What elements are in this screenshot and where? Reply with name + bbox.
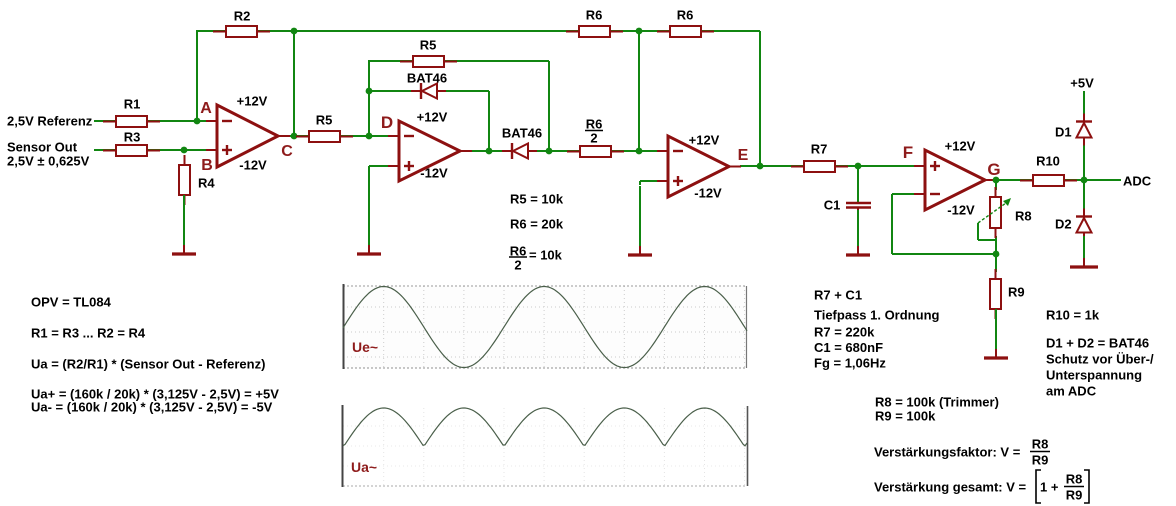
svg-text:+5V: +5V bbox=[1070, 76, 1094, 91]
resistor R4 bbox=[179, 155, 190, 205]
label Ua~ bbox=[351, 459, 377, 475]
svg-text:= 10k: = 10k bbox=[529, 248, 563, 263]
note Verstaerkungsfaktor bbox=[874, 445, 1021, 460]
node C junction bbox=[291, 133, 298, 140]
junction R8/R9 feedback bbox=[993, 251, 1000, 258]
junction BAT46 feedback tap bbox=[366, 88, 373, 95]
svg-text:Ua- = (160k / 20k) * (3,125V: Ua- = (160k / 20k) * (3,125V - 2,5V) = -… bbox=[31, 400, 273, 415]
label U4 +12V bbox=[945, 139, 976, 154]
note OPV = TL084 bbox=[31, 295, 112, 310]
note Verstaerkung gesamt bbox=[874, 480, 1026, 495]
resistor R9 bbox=[990, 269, 1001, 319]
svg-text:R7 = 220k: R7 = 220k bbox=[814, 325, 875, 340]
wire Sensor Out input to op-amp U1 non-inverting input bbox=[94, 149, 207, 151]
label R1 bbox=[124, 97, 141, 112]
ground U2 non-inverting input bbox=[357, 168, 381, 254]
svg-text:R9: R9 bbox=[1066, 488, 1083, 503]
label R6 first bbox=[586, 8, 603, 23]
wire U2 non-inverting input to ground bbox=[369, 166, 400, 170]
note Unterspannung bbox=[1046, 368, 1142, 383]
label R6 second bbox=[677, 8, 694, 23]
note Ua- formula bbox=[31, 400, 273, 415]
junction R6 middle bbox=[636, 28, 643, 35]
label node E bbox=[738, 147, 749, 164]
label R6/2 fraction bbox=[585, 117, 603, 146]
resistor R1 bbox=[103, 116, 160, 127]
value R6/2 = 10k bbox=[509, 244, 563, 273]
svg-text:-12V: -12V bbox=[947, 203, 975, 218]
note R8 = 100k (Trimmer) bbox=[875, 395, 999, 410]
note Ua+ formula bbox=[31, 387, 279, 402]
wire D1 branch up bbox=[1083, 139, 1085, 180]
label U3 +12V bbox=[689, 133, 720, 148]
diode D2 bbox=[1076, 209, 1092, 241]
svg-text:R8: R8 bbox=[1015, 209, 1032, 224]
label U3 -12V bbox=[694, 186, 722, 201]
junction R8 top bbox=[993, 177, 1000, 184]
op-amp U3 (E) bbox=[657, 136, 741, 197]
svg-text:Sensor Out: Sensor Out bbox=[7, 140, 78, 155]
resistor R3 bbox=[103, 145, 160, 156]
label D2 bbox=[1055, 217, 1072, 232]
svg-text:OPV = TL084: OPV = TL084 bbox=[31, 295, 112, 310]
wire BAT46 feedback right vertical bbox=[488, 91, 490, 151]
wire 2,5V Referenz input to node A bbox=[94, 120, 207, 122]
note R7 = 220k bbox=[814, 325, 875, 340]
node B junction bbox=[181, 147, 188, 154]
label node B bbox=[201, 157, 213, 174]
waveform Ue sine curve bbox=[343, 287, 747, 368]
note R7 + C1 bbox=[814, 288, 862, 303]
wire U3 non-inverting input to ground bbox=[640, 181, 669, 185]
diode BAT46 feedback bbox=[411, 83, 446, 99]
wire R6 junction vertical bbox=[638, 31, 640, 151]
oscilloscope plot Ua frame and grid bbox=[343, 405, 748, 487]
wire C1 branch down bbox=[857, 166, 859, 202]
resistor R6/2 bbox=[567, 146, 624, 157]
label R4 bbox=[198, 176, 215, 191]
junction node E output bbox=[757, 163, 764, 170]
wire R5 feedback right vertical down to node D output bbox=[548, 61, 550, 151]
node A junction bbox=[194, 118, 201, 125]
junction U2 inverting input bbox=[366, 133, 373, 140]
svg-text:Ue~: Ue~ bbox=[352, 339, 378, 355]
svg-text:C1 = 680nF: C1 = 680nF bbox=[814, 340, 883, 355]
note Ua formula bbox=[31, 357, 265, 372]
junction C1 tap bbox=[855, 163, 862, 170]
label U1 -12V bbox=[239, 158, 267, 173]
note Fg = 1,06Hz bbox=[814, 356, 886, 371]
op-amp U2 (D) bbox=[388, 121, 472, 181]
svg-text:E: E bbox=[738, 147, 749, 164]
svg-text:+12V: +12V bbox=[237, 94, 268, 109]
note R1 = R3 ... R2 = R4 bbox=[31, 326, 146, 341]
svg-text:R7 + C1: R7 + C1 bbox=[814, 288, 862, 303]
wire BAT46 feedback branch bbox=[369, 90, 489, 92]
label R9 bbox=[1008, 285, 1025, 300]
value R6 = 20k bbox=[510, 217, 564, 232]
label R5 feedback bbox=[420, 38, 437, 53]
svg-text:Tiefpass 1. Ordnung: Tiefpass 1. Ordnung bbox=[814, 308, 940, 323]
svg-text:C: C bbox=[281, 143, 293, 160]
ground R4 bbox=[172, 195, 196, 254]
svg-text:BAT46: BAT46 bbox=[407, 71, 447, 86]
note Verstaerkung gesamt bracket expression bbox=[1036, 470, 1089, 503]
junction R6/2 output bbox=[636, 148, 643, 155]
note R10 = 1k bbox=[1046, 308, 1100, 323]
label U2 -12V bbox=[420, 166, 448, 181]
label +5V supply bbox=[1070, 76, 1094, 91]
label node F bbox=[903, 143, 913, 162]
ground C1 bbox=[846, 210, 870, 255]
label R8 bbox=[1015, 209, 1032, 224]
label R3 bbox=[124, 130, 141, 145]
label R2 bbox=[234, 9, 251, 24]
ground R9 bbox=[984, 309, 1008, 358]
wire D2 anode to ground bbox=[1083, 232, 1085, 240]
wire node C to op-amp U2 inverting input bbox=[289, 135, 400, 137]
wire top feedback rail R2 to R6 bbox=[196, 30, 639, 32]
value R5 = 10k bbox=[510, 192, 564, 207]
wire node D output line to op-amp U3 inverting input bbox=[471, 150, 669, 152]
svg-text:Verstärkungsfaktor: V =: Verstärkungsfaktor: V = bbox=[874, 445, 1021, 460]
label BAT46 feedback bbox=[407, 71, 447, 86]
resistor R2 bbox=[213, 26, 270, 37]
label Ue~ bbox=[352, 339, 378, 355]
svg-text:Unterspannung: Unterspannung bbox=[1046, 368, 1142, 383]
label U2 +12V bbox=[417, 110, 448, 125]
svg-text:BAT46: BAT46 bbox=[502, 126, 542, 141]
label U1 +12V bbox=[237, 94, 268, 109]
wire R8 wiper connection bbox=[978, 223, 996, 240]
svg-text:R5: R5 bbox=[420, 38, 437, 53]
note R9 = 100k bbox=[875, 409, 936, 424]
svg-text:R1: R1 bbox=[124, 97, 141, 112]
svg-text:Verstärkung gesamt: V =: Verstärkung gesamt: V = bbox=[874, 480, 1026, 495]
note C1 = 680nF bbox=[814, 340, 883, 355]
svg-text:-12V: -12V bbox=[694, 186, 722, 201]
wire node E output to op-amp U4 non-inverting input bbox=[740, 165, 926, 167]
svg-text:R6 = 20k: R6 = 20k bbox=[510, 217, 564, 232]
capacitor C1 bbox=[846, 203, 871, 212]
svg-text:+12V: +12V bbox=[945, 139, 976, 154]
wire node G output to ADC node bbox=[996, 179, 1084, 181]
svg-text:G: G bbox=[987, 160, 1000, 179]
svg-text:C1: C1 bbox=[824, 198, 841, 213]
svg-text:R8: R8 bbox=[1066, 472, 1083, 487]
label C1 bbox=[824, 198, 841, 213]
label 2,5V Referenz bbox=[7, 114, 93, 129]
svg-text:R6: R6 bbox=[586, 117, 603, 132]
wire +5V supply to D1 cathode bbox=[1083, 91, 1085, 122]
label node A bbox=[200, 100, 212, 117]
label U4 -12V bbox=[947, 203, 975, 218]
resistor R6 first bbox=[566, 26, 623, 37]
svg-text:R5 = 10k: R5 = 10k bbox=[510, 192, 564, 207]
svg-text:R9: R9 bbox=[1008, 285, 1025, 300]
svg-text:D1 + D2 = BAT46: D1 + D2 = BAT46 bbox=[1046, 336, 1149, 351]
svg-text:2: 2 bbox=[514, 258, 521, 273]
wire R5 feedback top bbox=[368, 60, 549, 62]
wire R2 output down to node C bbox=[293, 31, 295, 136]
svg-text:B: B bbox=[201, 157, 213, 174]
svg-text:D1: D1 bbox=[1055, 125, 1072, 140]
svg-text:2,5V ± 0,625V: 2,5V ± 0,625V bbox=[7, 154, 90, 169]
label R5 series bbox=[316, 113, 333, 128]
label BAT46 series bbox=[502, 126, 542, 141]
resistor R6 second bbox=[657, 26, 714, 37]
diode BAT46 series bbox=[502, 143, 537, 159]
resistor R5 series bbox=[296, 131, 353, 142]
svg-text:am ADC: am ADC bbox=[1046, 384, 1097, 399]
svg-text:1 +: 1 + bbox=[1040, 480, 1059, 495]
wire R8 top stub bbox=[995, 180, 997, 190]
wire ADC node to ADC label bbox=[1084, 179, 1121, 181]
svg-text:A: A bbox=[200, 100, 212, 117]
resistor R5 feedback bbox=[400, 56, 457, 67]
note Tiefpass 1. Ordnung bbox=[814, 308, 940, 323]
junction node D R5 branch bbox=[546, 148, 553, 155]
svg-text:R6: R6 bbox=[586, 8, 603, 23]
label R7 bbox=[811, 142, 828, 157]
svg-text:ADC: ADC bbox=[1123, 174, 1152, 189]
svg-text:2: 2 bbox=[590, 131, 597, 146]
svg-text:R10 = 1k: R10 = 1k bbox=[1046, 308, 1100, 323]
wire R8 bottom to feedback junction bbox=[995, 236, 997, 254]
junction node D diode branch bbox=[486, 148, 493, 155]
svg-text:Ua~: Ua~ bbox=[351, 459, 377, 475]
junction R2 right bbox=[291, 28, 298, 35]
label node C bbox=[281, 143, 293, 160]
wire top rail second R6 to right vertical bbox=[639, 30, 760, 32]
svg-text:D2: D2 bbox=[1055, 217, 1072, 232]
note Schutz vor Ueber-/ bbox=[1046, 352, 1154, 367]
svg-text:D: D bbox=[381, 113, 393, 132]
wire right vertical down to node E output line bbox=[759, 31, 761, 166]
trimmer R8 bbox=[978, 187, 1011, 238]
svg-text:R10: R10 bbox=[1036, 154, 1060, 169]
svg-text:R1 = R3 ... R2 = R4: R1 = R3 ... R2 = R4 bbox=[31, 326, 146, 341]
wire U2 feedback left vertical bbox=[368, 61, 370, 136]
svg-text:R8: R8 bbox=[1032, 437, 1049, 452]
note D1 + D2 = BAT46 bbox=[1046, 336, 1149, 351]
wire node A vertical up to R2 bbox=[196, 31, 198, 122]
op-amp U1 (A/B/C) bbox=[206, 105, 290, 167]
label ADC bbox=[1123, 174, 1152, 189]
svg-text:Ua = (R2/R1) * (Sensor Out - R: Ua = (R2/R1) * (Sensor Out - Referenz) bbox=[31, 357, 265, 372]
resistor R10 bbox=[1020, 175, 1077, 186]
svg-text:-12V: -12V bbox=[420, 166, 448, 181]
svg-text:R6: R6 bbox=[677, 8, 694, 23]
svg-text:R3: R3 bbox=[124, 130, 141, 145]
svg-text:R5: R5 bbox=[316, 113, 333, 128]
label D1 bbox=[1055, 125, 1072, 140]
note am ADC bbox=[1046, 384, 1097, 399]
svg-text:F: F bbox=[903, 143, 913, 162]
svg-text:R4: R4 bbox=[198, 176, 215, 191]
svg-text:R7: R7 bbox=[811, 142, 828, 157]
ground U3 non-inverting input bbox=[628, 186, 652, 255]
svg-text:Fg = 1,06Hz: Fg = 1,06Hz bbox=[814, 356, 886, 371]
note Verstaerkungsfaktor fraction R8/R9 bbox=[1030, 437, 1050, 468]
svg-text:R2: R2 bbox=[234, 9, 251, 24]
svg-text:2,5V Referenz: 2,5V Referenz bbox=[7, 114, 93, 129]
svg-text:R9 = 100k: R9 = 100k bbox=[875, 409, 936, 424]
svg-text:Schutz vor Über-/: Schutz vor Über-/ bbox=[1046, 352, 1154, 367]
resistor R7 bbox=[791, 161, 848, 172]
diode D1 bbox=[1076, 114, 1092, 146]
label node D bbox=[381, 113, 393, 132]
op-amp U4 (F/G) bbox=[914, 150, 997, 210]
svg-text:R9: R9 bbox=[1032, 453, 1049, 468]
wire R9 junction stub bbox=[995, 254, 997, 272]
waveform Ua rectified curve bbox=[343, 408, 747, 446]
svg-text:R8 = 100k (Trimmer): R8 = 100k (Trimmer) bbox=[875, 395, 999, 410]
label R10 bbox=[1036, 154, 1060, 169]
wire D2 branch down bbox=[1083, 180, 1085, 216]
svg-text:-12V: -12V bbox=[239, 158, 267, 173]
label Sensor Out bbox=[7, 140, 90, 169]
wire U4 feedback bottom to R8/R9 junction bbox=[892, 253, 996, 255]
junction ADC node bbox=[1081, 177, 1088, 184]
svg-text:+12V: +12V bbox=[417, 110, 448, 125]
svg-text:+12V: +12V bbox=[689, 133, 720, 148]
label node G bbox=[987, 160, 1000, 179]
oscilloscope plot Ue frame and grid bbox=[343, 284, 747, 369]
ground D2 bbox=[1070, 236, 1098, 267]
wire U4 inverting input feedback left bbox=[892, 194, 926, 254]
